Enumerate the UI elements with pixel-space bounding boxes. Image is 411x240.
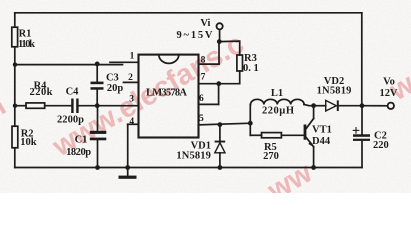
wire pin3 bbox=[98, 105, 139, 107]
label R5 bbox=[264, 142, 277, 153]
svg-text:20p: 20p bbox=[107, 83, 124, 94]
wire R5 to base bbox=[281, 134, 304, 136]
label 2200p bbox=[57, 114, 84, 125]
wire right feedback vertical bbox=[361, 13, 363, 106]
wire pin2 stub bbox=[124, 81, 139, 83]
resistor R1 bbox=[12, 27, 18, 47]
svg-text:270: 270 bbox=[263, 151, 279, 162]
svg-text:1: 1 bbox=[130, 51, 135, 61]
wire R3 top bbox=[219, 41, 240, 55]
pin 7 bbox=[201, 72, 206, 82]
wire R5 left bbox=[250, 134, 261, 136]
pin 5 bbox=[199, 114, 204, 124]
wire pin4 stub bbox=[128, 123, 139, 125]
svg-text:1N5819: 1N5819 bbox=[317, 86, 352, 97]
capacitor C4 bbox=[71, 99, 78, 114]
svg-text:Vo: Vo bbox=[383, 76, 395, 87]
svg-text:Vi: Vi bbox=[200, 18, 210, 29]
svg-text:D44: D44 bbox=[312, 136, 331, 147]
transistor VT1 bbox=[304, 119, 314, 148]
wire left rail R1 to pin1 rail bbox=[14, 47, 16, 106]
wire C1 top lead bbox=[97, 106, 99, 131]
wire C2 bottom lead bbox=[361, 141, 363, 168]
label C1 bbox=[75, 135, 88, 146]
svg-text:0. 1: 0. 1 bbox=[243, 63, 259, 74]
svg-text:10k: 10k bbox=[20, 137, 37, 148]
pin 3 bbox=[129, 94, 134, 104]
label R3 bbox=[244, 53, 257, 64]
wire VD1 bottom lead bbox=[219, 153, 221, 168]
wire VD1 top lead bbox=[219, 125, 221, 142]
wire bottom rail bbox=[15, 167, 362, 169]
wire pin8 stub bbox=[199, 63, 220, 65]
svg-text:220: 220 bbox=[373, 140, 389, 151]
svg-text:R1: R1 bbox=[19, 29, 32, 40]
resistor R2 bbox=[12, 126, 18, 148]
wire R3 bottom bbox=[199, 71, 240, 84]
svg-text:1N5819: 1N5819 bbox=[176, 150, 211, 161]
wire R4 to C4 bbox=[45, 105, 71, 107]
label 110k bbox=[18, 39, 35, 50]
wire C2 top lead bbox=[361, 106, 363, 135]
wire L1 right bbox=[304, 105, 314, 106]
svg-text:4: 4 bbox=[129, 117, 134, 127]
wire pin5 bbox=[199, 123, 251, 125]
svg-text:220µH: 220µH bbox=[262, 106, 294, 117]
wire pin6 to pin7 bbox=[218, 84, 220, 105]
wire C3 top lead bbox=[96, 64, 98, 82]
label 9~15V bbox=[177, 30, 213, 41]
wire output bbox=[362, 105, 388, 107]
wire pin1 rail bbox=[15, 64, 123, 66]
C2 plus sign bbox=[353, 128, 359, 134]
ground bbox=[119, 168, 137, 179]
label 1N5819 VD2 bbox=[317, 86, 352, 97]
label 220k bbox=[30, 87, 53, 98]
wire pin1 stub bbox=[110, 61, 139, 63]
label C4 bbox=[66, 86, 80, 97]
label R1 bbox=[19, 29, 32, 40]
wire left rail middle bbox=[14, 106, 16, 127]
label D44 bbox=[312, 136, 331, 147]
diode VD1 bbox=[215, 141, 226, 153]
wire pin4 to ground bbox=[127, 124, 129, 167]
label Vi bbox=[200, 18, 210, 29]
svg-text:8: 8 bbox=[201, 55, 206, 65]
watermark bbox=[0, 28, 411, 208]
label 12V bbox=[380, 88, 398, 99]
wire collector vertical bbox=[313, 106, 315, 119]
wire R4 left bbox=[15, 105, 26, 107]
svg-text:6: 6 bbox=[199, 94, 204, 104]
svg-text:220k: 220k bbox=[30, 87, 53, 98]
terminal Vi bbox=[217, 23, 223, 29]
capacitor C2 bbox=[353, 134, 370, 141]
label 1820p bbox=[66, 147, 91, 158]
label 220uH bbox=[262, 106, 294, 117]
wire VD2 anode lead bbox=[314, 105, 326, 107]
wire left rail lower bbox=[14, 148, 16, 168]
svg-text:C3: C3 bbox=[106, 72, 119, 83]
label R2 bbox=[21, 128, 34, 139]
pin 1 bbox=[130, 51, 135, 61]
svg-text:5: 5 bbox=[199, 114, 204, 124]
svg-text:VT1: VT1 bbox=[312, 124, 332, 135]
svg-text:7: 7 bbox=[201, 72, 206, 82]
pin 8 bbox=[201, 55, 206, 65]
wire left rail upper bbox=[14, 13, 16, 27]
svg-text:L1: L1 bbox=[271, 88, 283, 99]
diode VD2 bbox=[326, 100, 339, 111]
pin 2 bbox=[128, 73, 133, 83]
pin 4 bbox=[129, 117, 134, 127]
wire top rail bbox=[15, 12, 362, 15]
wire C4 to pin3 node bbox=[79, 105, 98, 107]
inductor L1 bbox=[251, 99, 305, 104]
IC notch bbox=[159, 55, 179, 64]
label C2 bbox=[374, 130, 387, 141]
svg-text:1820p: 1820p bbox=[66, 147, 91, 158]
wire C3 bottom lead bbox=[96, 90, 98, 106]
pin 6 bbox=[199, 94, 204, 104]
label VT1 bbox=[312, 124, 332, 135]
resistor R3 bbox=[237, 55, 243, 71]
capacitor C3 bbox=[91, 82, 104, 90]
wire emitter vertical bbox=[313, 147, 315, 168]
wire VD2 cathode to C2 node bbox=[339, 105, 362, 107]
label VD2 bbox=[324, 76, 344, 87]
svg-text:2: 2 bbox=[128, 73, 133, 83]
wire pin6 stub bbox=[199, 103, 219, 105]
resistor R5 bbox=[262, 133, 282, 138]
label 1N5819 VD1 bbox=[176, 150, 211, 161]
wire Vi stub bbox=[219, 29, 221, 41]
svg-text:3: 3 bbox=[129, 94, 134, 104]
wire pin8 vertical bbox=[218, 42, 220, 65]
label Vo bbox=[383, 76, 395, 87]
svg-text:C1: C1 bbox=[75, 135, 88, 146]
wire C1 bottom lead bbox=[97, 140, 99, 167]
label 270 bbox=[263, 151, 279, 162]
capacitor C1 bbox=[90, 131, 107, 141]
label R4 bbox=[34, 80, 48, 91]
label LM3578A bbox=[146, 87, 187, 98]
label 220 bbox=[373, 140, 389, 151]
svg-text:2200p: 2200p bbox=[57, 114, 84, 125]
terminal Vo bbox=[388, 103, 394, 109]
op-amp U1 LM3578A body bbox=[139, 55, 199, 138]
label 20p bbox=[107, 83, 124, 94]
wire L1 left vertical bbox=[249, 105, 251, 136]
label L1 bbox=[271, 88, 283, 99]
svg-text:110k: 110k bbox=[18, 39, 35, 50]
resistor R4 bbox=[26, 103, 45, 108]
svg-text:12V: 12V bbox=[380, 88, 398, 99]
label VD1 bbox=[191, 140, 211, 151]
label C3 bbox=[106, 72, 119, 83]
label 10k bbox=[20, 137, 37, 148]
svg-text:LM3578A: LM3578A bbox=[146, 87, 187, 98]
svg-text:C4: C4 bbox=[66, 86, 80, 97]
label 0.1 bbox=[243, 63, 259, 74]
